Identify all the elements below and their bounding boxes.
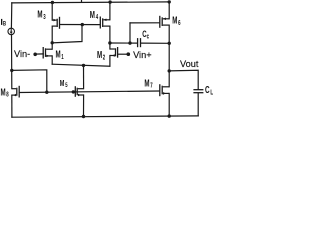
node dot VSS / M7 source [168, 114, 171, 117]
wire bias horizontal from IB node [12, 70, 47, 92]
wire VDD stub [81, 0, 83, 2]
transistor M4 [100, 17, 110, 29]
wire Vin+ lead [118, 53, 128, 55]
svg-text:M: M [97, 48, 102, 60]
wire M3 diode connection [52, 25, 82, 43]
current source IB [8, 28, 15, 35]
label IB [1, 19, 6, 28]
svg-text:M: M [60, 78, 65, 89]
transistor M8 [12, 86, 19, 98]
wire node A to Cc [110, 42, 137, 44]
label Cc [142, 29, 149, 41]
node dot A (M4/M2 drains) [108, 41, 111, 44]
node dot M5 gate [72, 90, 75, 93]
wire M2 drain to node A [109, 43, 111, 49]
wire VSS bottom rail [12, 116, 198, 117]
transistor M1 [43, 47, 52, 59]
wire tail line M1-M2 sources [52, 64, 110, 66]
wire CL bottom to VSS [197, 93, 199, 116]
terminal bullet Vin+ [127, 52, 131, 56]
node dot M6 gate branch [128, 41, 131, 44]
junction dots [10, 0, 171, 118]
wire M7 source down to VSS [168, 93, 170, 116]
label CL [205, 83, 213, 96]
label M1 [56, 48, 65, 61]
svg-text:M: M [144, 77, 149, 89]
node dot tail [82, 64, 85, 67]
wire M1 source down [51, 56, 53, 64]
node dot gate line M3-M4 [81, 23, 84, 26]
transistor M2 [110, 47, 118, 58]
svg-text:M: M [90, 8, 95, 20]
svg-text:M: M [1, 86, 6, 98]
wire gate line M3-M4 [60, 24, 100, 26]
node dot M3 diode/drain [51, 41, 54, 44]
wire M2 source down [109, 56, 111, 67]
node dot top rail / M4 [108, 0, 111, 3]
wire tail drop to M5 drain [83, 65, 85, 88]
svg-text:Vout: Vout [180, 59, 199, 69]
svg-text:M: M [37, 8, 42, 20]
svg-text:5: 5 [65, 82, 67, 89]
wire VDD top rail [12, 2, 169, 3]
node dot top rail / M3 [51, 1, 54, 4]
wire M6 gate vertical [129, 23, 131, 43]
wire M4 drain to node A [109, 26, 111, 43]
transistor M6 [160, 16, 169, 28]
svg-text:C: C [205, 83, 210, 95]
node dot IB bias T [10, 69, 13, 72]
label M8 [1, 86, 10, 99]
capacitor Cc [138, 38, 141, 47]
wire M4 source to VDD [109, 2, 111, 20]
wire M6 source to VDD [168, 2, 170, 19]
wire M6 gate lead [130, 22, 159, 24]
node dot top rail / M6 [168, 0, 171, 3]
capacitor CL [193, 90, 203, 93]
wire M5 source down to VSS [83, 95, 85, 117]
svg-text:7: 7 [150, 83, 152, 90]
wire M8 source down to VSS [11, 95, 13, 117]
svg-text:2: 2 [103, 54, 105, 61]
wire M3 drain to M1 drain [51, 26, 53, 49]
svg-text:Vin-: Vin- [14, 49, 30, 59]
wire Vout column [168, 25, 170, 87]
label M3 [37, 8, 46, 21]
svg-text:M: M [172, 14, 177, 26]
svg-text:B: B [3, 21, 6, 28]
wire gate bias line M8-M5-M7 [20, 91, 160, 93]
wire M3 source to VDD [51, 3, 53, 20]
wire Cc to Vout column [141, 42, 169, 44]
transistor M7 [160, 84, 169, 96]
wire Vout branch to CL [169, 70, 198, 89]
label M2 [97, 48, 105, 61]
node dot VSS / M5 source [82, 115, 85, 118]
transistor M3 [52, 17, 59, 29]
label M6 [172, 14, 181, 27]
terminal bullet Vin- [33, 53, 37, 57]
wire Vin- lead [35, 53, 43, 55]
node dot Cc/Vout column [168, 42, 171, 45]
wire IB column lower to M8 drain [11, 35, 13, 89]
label M7 [144, 77, 152, 90]
svg-text:L: L [210, 90, 213, 97]
wire IB column upper [10, 3, 12, 28]
label M5 [60, 78, 68, 90]
svg-text:Vin+: Vin+ [133, 50, 151, 60]
node dot bias/gate line left [45, 91, 48, 94]
transistor M5 [75, 86, 83, 97]
node dot Vout branch [168, 69, 171, 72]
label M4 [90, 8, 99, 21]
svg-text:M: M [56, 48, 61, 60]
